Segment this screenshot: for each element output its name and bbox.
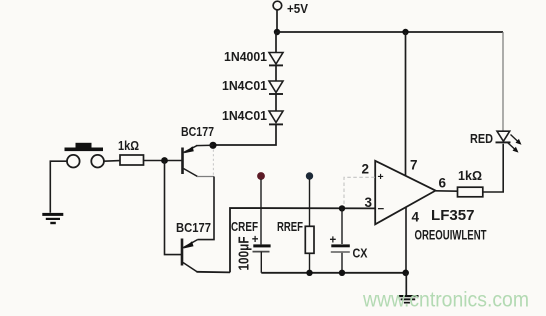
resistor R2 1kΩ xyxy=(458,169,483,197)
svg-text:www.cntronics.com: www.cntronics.com xyxy=(362,288,529,312)
ground (right) xyxy=(398,273,419,304)
wire top bus xyxy=(277,31,503,33)
svg-text:3: 3 xyxy=(365,195,373,210)
junction (top bus right) xyxy=(402,29,408,35)
ground (left) xyxy=(42,213,63,224)
wire blue probe to RREF xyxy=(309,179,311,226)
wire Q1 collector stub (faint) xyxy=(197,176,214,178)
junction RREF-gnd xyxy=(306,270,312,276)
wire Q1 collector to Q2 emitter xyxy=(198,177,215,240)
wire switch to R1 xyxy=(104,160,120,163)
svg-text:+: + xyxy=(378,171,384,183)
svg-text:+5V: +5V xyxy=(287,1,308,16)
wire base rail down to Q2 base xyxy=(165,161,182,255)
svg-text:1N4001: 1N4001 xyxy=(224,50,267,64)
svg-text:−: − xyxy=(378,204,385,216)
svg-text:1kΩ: 1kΩ xyxy=(118,139,139,153)
transistor Q2 BC177 xyxy=(176,220,211,272)
capacitor CX xyxy=(330,235,369,261)
junction pin4-gnd xyxy=(402,270,409,277)
wire diode chain to Q1 emitter xyxy=(213,124,276,145)
svg-text:CX: CX xyxy=(353,246,369,260)
wire red probe to CREF xyxy=(260,179,262,244)
wire pin4 to ground bus xyxy=(405,207,407,273)
wire bus to LED anode (faint) xyxy=(502,32,504,131)
svg-text:LF357: LF357 xyxy=(431,208,475,224)
diode D2 1N4001 xyxy=(222,65,283,94)
wire pin6 output xyxy=(436,190,458,192)
diode D3 1N4001 xyxy=(222,94,283,124)
svg-text:6: 6 xyxy=(439,176,447,191)
junction (+5V node) xyxy=(274,29,280,35)
svg-text:4: 4 xyxy=(412,210,420,225)
svg-text:BC177: BC177 xyxy=(181,125,214,139)
pushbutton switch S1 xyxy=(65,143,104,168)
svg-text:1kΩ: 1kΩ xyxy=(458,169,482,183)
svg-text:2: 2 xyxy=(362,162,370,177)
wire pin2 (faint) xyxy=(344,177,375,206)
svg-text:7: 7 xyxy=(410,158,418,173)
svg-text:1N4C01: 1N4C01 xyxy=(222,79,267,93)
transistor Q1 BC177 xyxy=(181,125,214,177)
wire pin7 riser xyxy=(405,32,407,176)
LED D4 RED xyxy=(470,131,522,152)
svg-text:CREF: CREF xyxy=(231,220,258,234)
junction pin3 node xyxy=(339,205,345,211)
svg-text:RREF: RREF xyxy=(277,220,303,234)
capacitor CREF xyxy=(252,234,271,251)
svg-text:1N4C01: 1N4C01 xyxy=(222,109,267,123)
wire CX to ground bus xyxy=(341,253,343,273)
wire Q2 collector to bus A xyxy=(197,271,231,274)
junction node B (base rail) xyxy=(161,157,168,164)
wire switch to ground xyxy=(50,161,67,213)
svg-text:OREOUIWLENT: OREOUIWLENT xyxy=(415,227,488,242)
resistor RREF xyxy=(305,226,314,253)
wire CREF to ground bus xyxy=(260,252,262,273)
svg-text:RED: RED xyxy=(470,132,493,146)
junction node A (Q1 emitter) xyxy=(209,142,216,149)
wire R1 to Q1 base xyxy=(144,160,182,162)
wire ground bus xyxy=(261,272,405,274)
svg-text:100μF: 100μF xyxy=(237,236,253,270)
wire pin3 node to CX xyxy=(341,208,343,244)
op-amp U1 LF357 xyxy=(362,158,447,225)
wire riser node REF xyxy=(230,208,375,272)
resistor R1 1kΩ xyxy=(118,139,144,165)
junction CX-gnd xyxy=(339,270,345,276)
wire R2 to LED xyxy=(483,144,503,192)
node probe (blue) xyxy=(306,172,313,179)
node probe (red) xyxy=(257,172,265,180)
svg-text:BC177: BC177 xyxy=(176,220,211,235)
wire faint under junction xyxy=(212,150,214,176)
+5V terminal xyxy=(273,1,308,16)
diode D1 1N4001 xyxy=(224,32,283,65)
wire +5V to top bus xyxy=(276,10,278,32)
wire RREF to ground bus xyxy=(309,253,311,272)
